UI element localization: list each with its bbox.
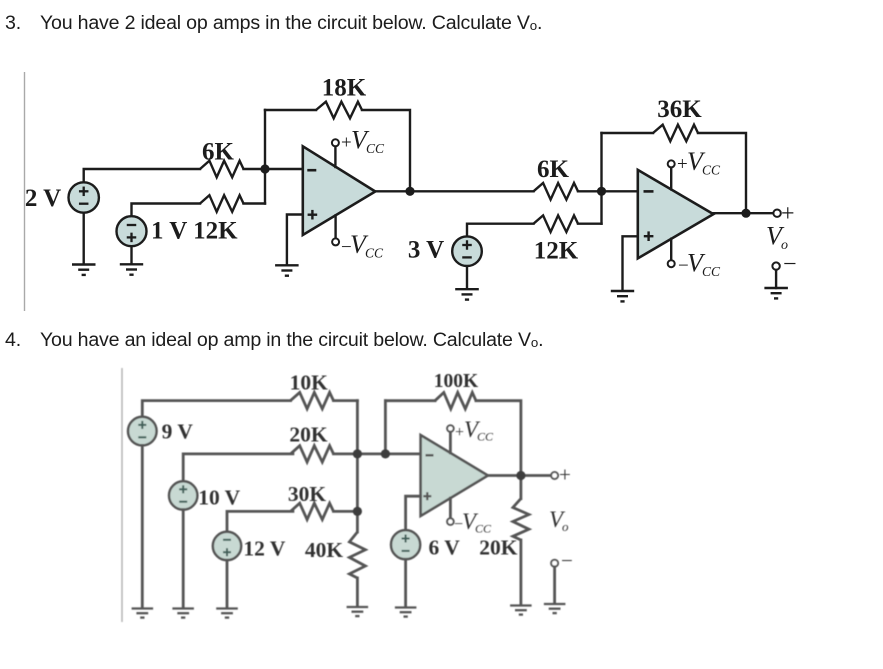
svg-text:o: o [562,519,569,534]
svg-text:20K: 20K [289,423,328,447]
svg-text:3 V: 3 V [408,237,444,264]
svg-text:10 V: 10 V [198,486,240,510]
svg-text:−: − [783,252,797,278]
svg-text:+: + [559,463,571,487]
svg-text:+: + [455,424,464,441]
svg-text:12 V: 12 V [243,537,285,561]
svg-text:CC: CC [477,430,494,444]
svg-text:40K: 40K [305,538,344,562]
svg-text:+: + [781,201,795,227]
svg-text:12K: 12K [534,238,579,265]
svg-text:CC: CC [702,163,721,178]
svg-text:6 V: 6 V [429,536,461,560]
svg-text:6K: 6K [202,139,235,166]
svg-text:2 V: 2 V [25,185,61,212]
svg-text:CC: CC [702,264,721,279]
svg-text:18K: 18K [322,75,367,102]
svg-text:CC: CC [366,141,385,156]
svg-text:CC: CC [475,521,492,535]
svg-text:6K: 6K [537,156,570,183]
svg-text:−: − [561,549,573,573]
svg-text:9 V: 9 V [162,420,194,444]
svg-text:10K: 10K [290,371,329,395]
svg-text:1 V 12K: 1 V 12K [151,218,238,245]
svg-text:36K: 36K [657,96,702,123]
svg-text:20K: 20K [479,536,518,560]
svg-text:CC: CC [365,246,384,261]
svg-text:30K: 30K [288,482,327,506]
svg-text:100K: 100K [434,371,479,392]
